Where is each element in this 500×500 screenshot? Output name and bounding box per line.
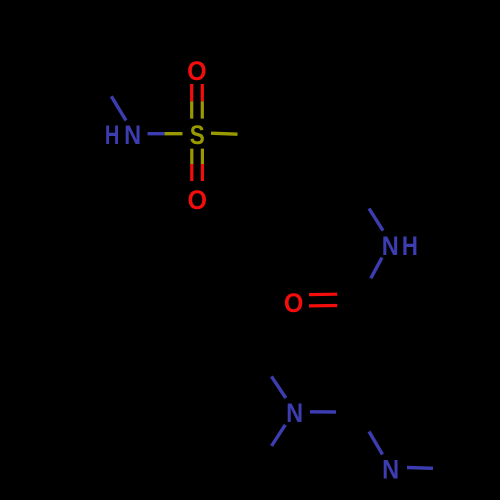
svg-text:O: O — [284, 288, 304, 318]
svg-text:N: N — [124, 120, 141, 150]
wire C=O double bond upper line red half — [309, 293, 337, 297]
wire bond CH3-N(dimethyl) lower-left blue half — [272, 425, 286, 446]
wire bond N(bottom)-CH3 right blue half — [407, 466, 433, 470]
wire S=O top double bond left line red half — [190, 84, 193, 101]
wire S=O top double bond left line olive half — [190, 101, 193, 118]
wire bond C-N(bottom) diagonal blue half — [369, 432, 383, 455]
wire bond N-C(=O) blue half — [371, 258, 382, 279]
wire S=O bottom double bond left line red half — [190, 164, 193, 181]
wire bond S-C(aryl) olive half — [211, 133, 238, 134]
svg-text:N: N — [382, 231, 399, 261]
wire bond CH3-N (methyl to sulfonamide N, blue half) — [111, 96, 126, 120]
wire S=O top double bond right line red half — [201, 84, 204, 101]
svg-text:S: S — [190, 120, 205, 150]
wire S=O bottom double bond left line olive half — [190, 149, 193, 164]
svg-text:N: N — [382, 455, 399, 485]
svg-text:H: H — [105, 120, 120, 150]
wire C=O double bond lower line red half — [309, 304, 337, 308]
wire S=O top double bond right line olive half — [201, 101, 204, 118]
wire bond C(aryl)-N amide blue half — [369, 209, 383, 231]
wire bond CH3-N(dimethyl) upper-left blue half — [271, 376, 285, 398]
wire S=O bottom double bond right line red half — [201, 164, 204, 181]
wire bond N(dimethyl)-C(ring) right blue half — [310, 410, 336, 414]
svg-text:N: N — [286, 398, 303, 428]
wire bond N-S olive half — [165, 132, 183, 135]
wire bond N-S blue half — [148, 132, 165, 135]
svg-text:H: H — [402, 231, 418, 261]
wire S=O bottom double bond right line olive half — [201, 149, 204, 164]
svg-text:O: O — [187, 185, 207, 215]
svg-text:O: O — [187, 56, 207, 86]
